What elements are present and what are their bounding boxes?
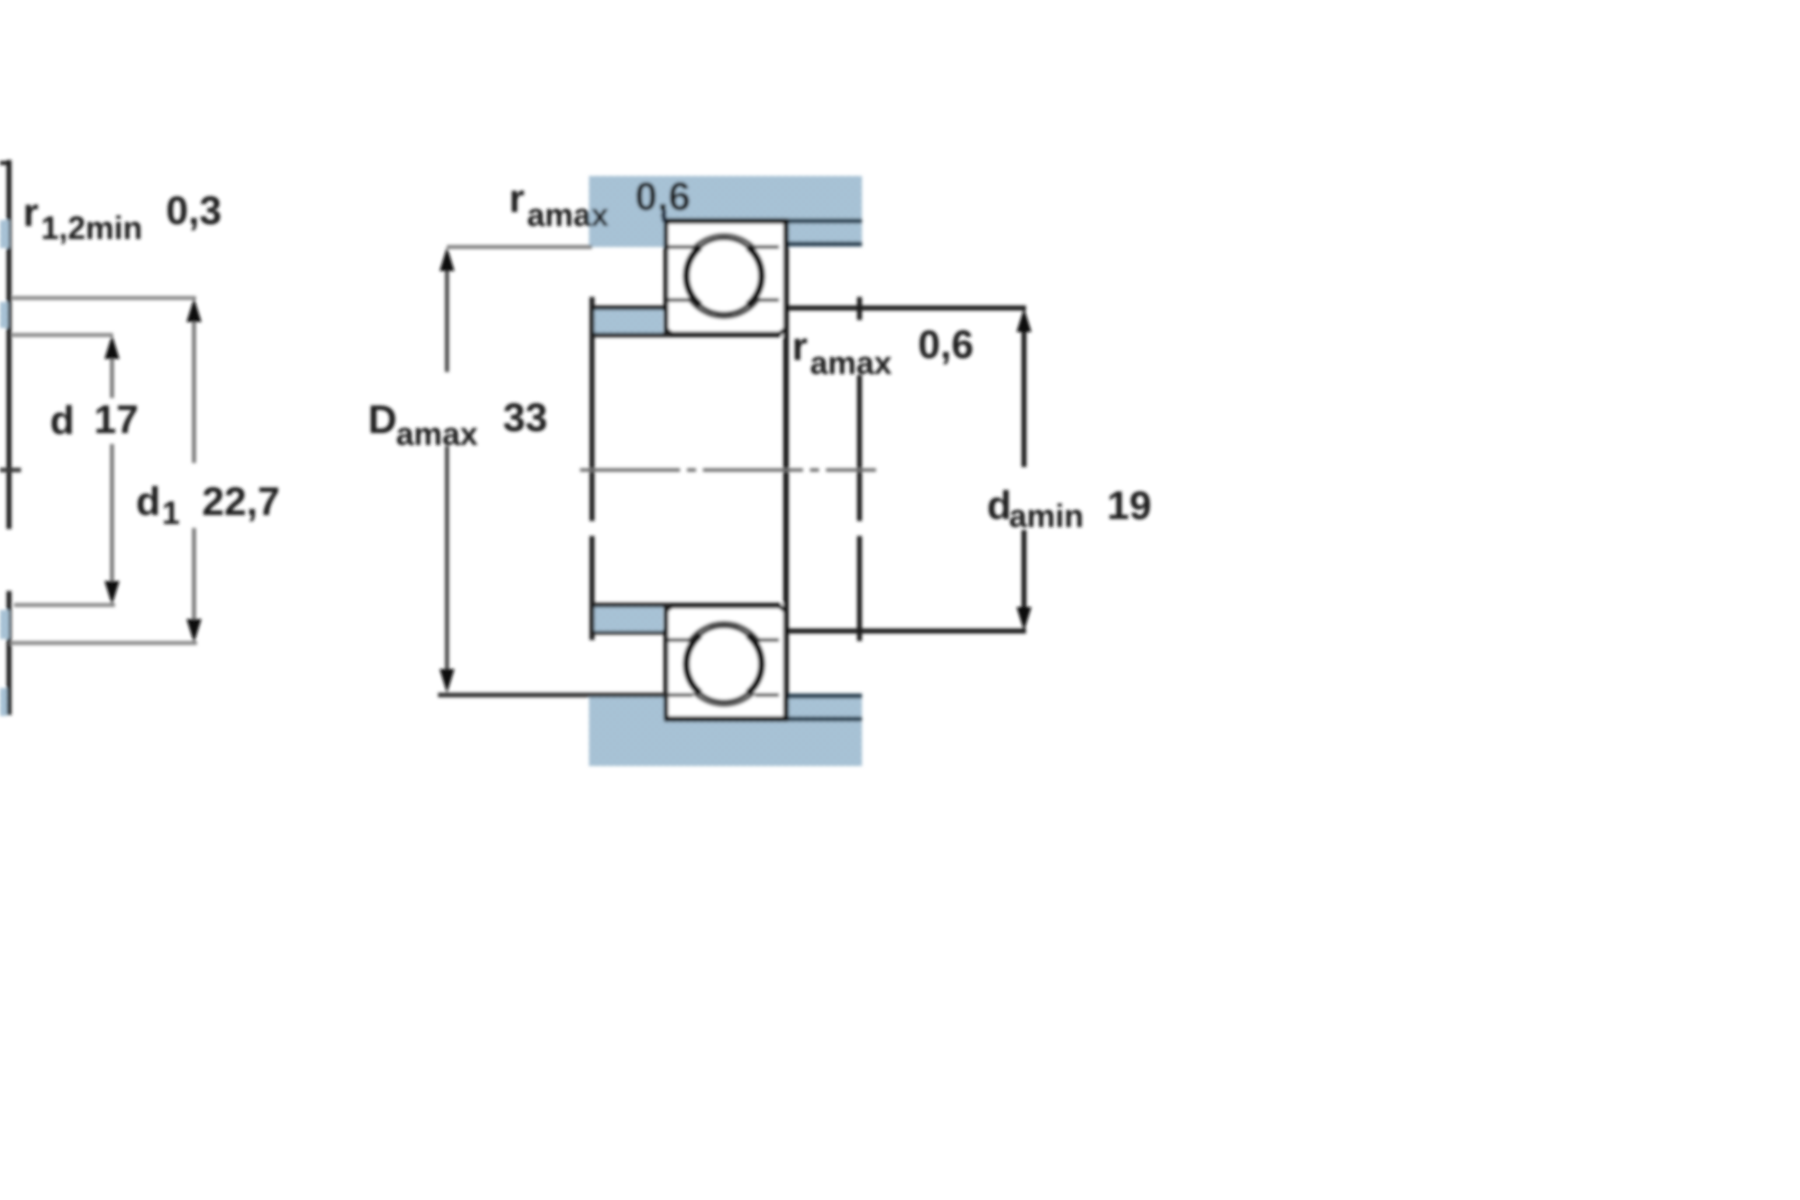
bearing/shaft right face (continuous) xyxy=(783,219,789,721)
shaft shoulder hatch bottom xyxy=(594,606,663,631)
shaft left face (upper segment) xyxy=(590,297,595,521)
inner ring groove arc bottom xyxy=(689,623,759,641)
housing bottom middle under bearing xyxy=(666,719,786,766)
outer ring groove arc xyxy=(693,235,755,248)
ball bottom xyxy=(687,627,762,702)
d_amin extension line top xyxy=(786,306,1026,311)
shaft seat line top xyxy=(592,333,781,338)
outer ring top edge xyxy=(664,218,788,224)
shaft left face (lower segment) xyxy=(590,536,595,640)
housing top-left shoulder part xyxy=(589,219,666,247)
svg-text:0,6: 0,6 xyxy=(918,323,974,367)
svg-text:r: r xyxy=(792,325,808,369)
arrow d_amin top xyxy=(1017,308,1032,332)
shaft end face tick at d ext line xyxy=(857,297,862,320)
shaft seat line bottom xyxy=(592,603,781,608)
bearing left face bottom xyxy=(664,607,669,719)
shaft shoulder hatch top xyxy=(594,310,663,334)
extension line d1 top xyxy=(12,296,196,300)
left bearing right-face edge line (upper segment) xyxy=(7,160,12,529)
outer ring land left xyxy=(668,245,694,249)
housing top-right strip part xyxy=(786,219,862,247)
extension line d bottom xyxy=(14,603,115,607)
outer ring bottom edge xyxy=(664,716,788,722)
leader 0,6 top xyxy=(662,210,667,222)
inner ring bore line bottom xyxy=(671,604,779,609)
extension line d top xyxy=(12,333,113,337)
svg-text:amax: amax xyxy=(810,345,892,381)
extension line d1 bottom xyxy=(10,641,197,645)
housing shoulder line top-right (navy) xyxy=(786,242,862,247)
dimension line d (vertical) xyxy=(110,356,114,398)
arrow d bottom xyxy=(105,581,120,605)
housing bore line bottom-right (navy) xyxy=(786,717,862,722)
housing bore line top-right (navy) xyxy=(786,219,862,224)
ball top thick right arc xyxy=(748,247,762,305)
bearing top white area xyxy=(664,219,788,337)
housing shoulder line bottom-right (navy) xyxy=(786,694,862,699)
left bearing hatch sliver: outer ring bottom xyxy=(0,688,7,716)
left bearing hatch sliver: outer ring top xyxy=(0,220,9,248)
left bearing right-face edge line (lower segment) xyxy=(7,591,12,715)
arrow d_amin bottom xyxy=(1017,607,1032,631)
svg-text:1: 1 xyxy=(162,495,180,531)
dimension line d1 (vertical) xyxy=(192,320,196,463)
left bearing top corner stub xyxy=(0,161,9,165)
inner ring land right top xyxy=(758,298,779,302)
svg-text:33: 33 xyxy=(503,396,548,440)
bore chamfer left top xyxy=(666,329,672,334)
inner ring groove arc top xyxy=(689,299,759,317)
outer ring groove arc bottom xyxy=(694,693,754,705)
D_amax extension/shoulder line bottom xyxy=(438,693,666,698)
svg-text:d: d xyxy=(136,480,160,524)
svg-text:amax: amax xyxy=(396,416,478,452)
arrow D_amax top xyxy=(440,247,455,271)
ball bottom thick left arc xyxy=(686,635,700,693)
svg-text:d: d xyxy=(50,399,74,443)
inner ring land left top xyxy=(668,298,690,302)
inner ring bore line top xyxy=(671,332,779,337)
centerline (dash-dot) xyxy=(580,468,876,472)
arrow d1 top xyxy=(187,298,202,322)
bearing left face top xyxy=(664,221,669,333)
left centerline tick xyxy=(0,468,21,473)
outer ring land left bottom xyxy=(668,693,693,697)
left bearing hatch sliver: inner ring bottom xyxy=(0,610,9,639)
svg-text:1,2min: 1,2min xyxy=(41,210,142,246)
shaft end face (lower segment) xyxy=(857,536,862,641)
bearing bottom white area xyxy=(664,603,788,721)
inner ring land left bottom xyxy=(668,638,690,642)
outer ring land right xyxy=(754,245,779,249)
shaft shoulder top line xyxy=(590,306,664,311)
svg-text:r: r xyxy=(509,177,525,221)
arrow D_amax bottom xyxy=(440,669,455,693)
d_amin dimension line xyxy=(1022,330,1027,467)
svg-text:0,3: 0,3 xyxy=(166,189,222,233)
left bearing hatch sliver: inner ring top xyxy=(0,302,8,328)
bore chamfer right bottom xyxy=(779,606,785,611)
svg-text:D: D xyxy=(368,398,397,442)
bore chamfer right top xyxy=(779,329,785,334)
housing top block (blue) xyxy=(589,176,862,221)
bore chamfer left bottom xyxy=(666,606,672,611)
shaft shoulder bottom line xyxy=(590,630,664,635)
ball top thick left arc xyxy=(686,247,700,305)
svg-text:amax: amax xyxy=(527,197,609,233)
svg-text:amin: amin xyxy=(1009,498,1084,534)
inner ring land right bottom xyxy=(758,638,779,642)
svg-text:17: 17 xyxy=(94,398,139,442)
D_amax extension line top (gray) xyxy=(447,245,592,249)
ball top xyxy=(687,239,762,314)
housing bottom block (blue) xyxy=(589,697,862,766)
arrow d top xyxy=(105,335,120,359)
svg-text:22,7: 22,7 xyxy=(202,480,280,524)
outer ring land right bottom xyxy=(755,693,779,697)
d_amin extension line bottom xyxy=(786,629,1026,634)
svg-text:19: 19 xyxy=(1107,484,1152,528)
arrow d1 bottom xyxy=(187,619,202,643)
D_amax dimension line xyxy=(445,270,449,372)
ball bottom thick right arc xyxy=(748,635,762,693)
shaft end face (upper segment) xyxy=(857,375,862,521)
svg-text:d: d xyxy=(987,484,1011,528)
svg-text:r: r xyxy=(23,191,39,235)
